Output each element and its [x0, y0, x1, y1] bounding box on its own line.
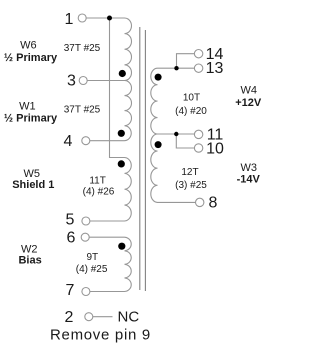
pin 4 terminal: [82, 137, 90, 145]
polarity dot winding W4: [155, 74, 162, 81]
svg-text:Remove pin 9: Remove pin 9: [50, 327, 151, 344]
svg-text:8: 8: [209, 194, 218, 211]
core line right: [144, 30, 146, 291]
wire pin2 NC stub: [93, 316, 113, 318]
wire pin14 branch: [177, 54, 195, 68]
winding W3 (-14V, to pin 8): [151, 134, 158, 202]
svg-text:10T: 10T: [183, 93, 200, 104]
winding W6 (1/2 primary, pins 1-3): [125, 18, 132, 81]
pin 6 terminal: [81, 233, 89, 241]
svg-text:4: 4: [64, 133, 73, 150]
winding W5 (shield 1, to pin 5): [125, 158, 132, 221]
wire pin1 to winding W6: [86, 17, 124, 19]
polarity dot winding W2: [118, 243, 125, 250]
svg-text:½ Primary: ½ Primary: [4, 113, 58, 125]
wire pin3 to winding tap: [87, 80, 124, 82]
pin 2 terminal: [85, 313, 93, 321]
svg-text:12T: 12T: [181, 167, 198, 178]
wire pin1-node down to winding W5: [110, 18, 125, 158]
core line left: [139, 27, 141, 290]
svg-text:+12V: +12V: [235, 97, 262, 109]
pin 1 terminal: [78, 14, 86, 22]
junction node pins 13/14: [174, 66, 178, 70]
pin 13 terminal: [194, 64, 202, 72]
svg-text:37T #25: 37T #25: [64, 43, 101, 54]
svg-text:13: 13: [206, 60, 224, 77]
svg-text:5: 5: [66, 211, 75, 228]
pin 10 terminal: [194, 144, 202, 152]
svg-text:Shield 1: Shield 1: [12, 179, 54, 191]
svg-text:½ Primary: ½ Primary: [4, 52, 58, 64]
wire winding W3 to pin 8: [158, 201, 196, 203]
pin 8 terminal: [196, 198, 204, 206]
junction node pins 10/11: [174, 132, 178, 136]
svg-text:7: 7: [66, 282, 75, 299]
pin 3 terminal: [79, 77, 87, 85]
wire pin6 to winding W2: [89, 236, 124, 238]
svg-text:W6: W6: [20, 39, 37, 51]
polarity dot winding W5: [118, 160, 125, 167]
svg-text:1: 1: [65, 11, 74, 28]
svg-text:NC: NC: [118, 309, 140, 326]
pin 14 terminal: [194, 50, 202, 58]
svg-text:(4) #25: (4) #25: [76, 264, 108, 275]
polarity dot winding W3: [155, 141, 162, 148]
wire pin4 to winding W1: [90, 140, 125, 142]
wire winding tap to pin 11: [158, 133, 195, 135]
junction node pin1/shield: [107, 16, 112, 21]
winding W2 (bias, pins 6-7): [125, 237, 132, 291]
wire winding W4 top to pin 13: [158, 67, 195, 69]
svg-text:W4: W4: [240, 85, 257, 97]
svg-text:W1: W1: [19, 101, 36, 113]
svg-text:10: 10: [206, 140, 224, 157]
svg-text:-14V: -14V: [237, 173, 261, 185]
polarity dot winding W1: [118, 130, 125, 137]
svg-text:11T: 11T: [89, 176, 106, 187]
svg-text:9T: 9T: [86, 252, 98, 263]
svg-text:Bias: Bias: [18, 254, 41, 266]
svg-text:37T #25: 37T #25: [64, 105, 101, 116]
pin 5 terminal: [82, 217, 90, 225]
svg-text:W3: W3: [240, 162, 257, 174]
pin 7 terminal: [82, 288, 90, 296]
winding W1 (1/2 primary, pins 3-4): [125, 81, 132, 141]
wire pin5 to winding W5: [90, 220, 125, 222]
svg-text:3: 3: [67, 72, 76, 89]
polarity dot winding W6: [119, 70, 126, 77]
pin 11 terminal: [194, 130, 202, 138]
svg-text:(4) #20: (4) #20: [175, 106, 207, 117]
svg-text:(4) #26: (4) #26: [83, 187, 115, 198]
wire pin7 to winding W2: [90, 291, 125, 293]
wire pin10 branch: [176, 134, 194, 148]
svg-text:6: 6: [67, 229, 76, 246]
winding W4 (+12V, pins 13/14 to 11): [151, 68, 158, 134]
svg-text:2: 2: [65, 309, 74, 326]
svg-text:(3) #25: (3) #25: [175, 180, 207, 191]
